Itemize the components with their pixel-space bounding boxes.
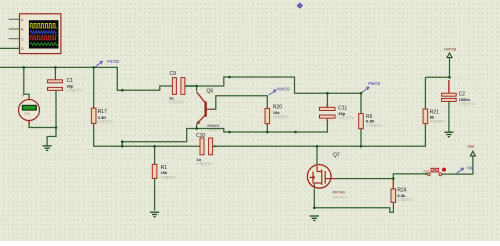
svg-text:<TEXT>: <TEXT> xyxy=(397,197,413,202)
svg-text:HVP08: HVP08 xyxy=(444,48,456,52)
svg-text:B: B xyxy=(21,28,23,32)
svg-text:<TEXT>: <TEXT> xyxy=(273,114,289,119)
svg-text:<TEXT>: <TEXT> xyxy=(67,88,83,93)
svg-text:IRF540: IRF540 xyxy=(333,191,345,195)
svg-text:Q7: Q7 xyxy=(333,153,340,159)
svg-text:<TEXT>: <TEXT> xyxy=(459,102,475,107)
svg-text:P4702: P4702 xyxy=(107,59,120,64)
svg-text:<TEXT>: <TEXT> xyxy=(430,119,446,124)
svg-text:<TEXT>: <TEXT> xyxy=(169,99,185,104)
svg-text:<TEXT>: <TEXT> xyxy=(207,129,222,133)
svg-text:<TEXT>: <TEXT> xyxy=(338,116,354,121)
svg-text:<TEXT>: <TEXT> xyxy=(333,195,348,199)
svg-text:R17: R17 xyxy=(98,109,107,115)
svg-text:+6V: +6V xyxy=(467,144,475,149)
svg-text:NMOS: NMOS xyxy=(277,87,290,92)
svg-text:<TEXT>: <TEXT> xyxy=(98,120,114,125)
svg-text:C9: C9 xyxy=(170,71,177,77)
svg-text:2N5401: 2N5401 xyxy=(207,124,220,128)
svg-text:RST: RST xyxy=(424,170,430,174)
svg-text:+: + xyxy=(22,93,25,98)
svg-text:PMOS: PMOS xyxy=(368,81,381,86)
svg-text:<TEXT>: <TEXT> xyxy=(197,161,213,166)
svg-text:Q6: Q6 xyxy=(207,89,214,95)
svg-text:<TEXT>: <TEXT> xyxy=(366,123,382,128)
svg-text:+6V: +6V xyxy=(466,165,475,170)
svg-text:C10: C10 xyxy=(196,133,205,139)
svg-text:0.00: 0.00 xyxy=(24,112,30,116)
svg-text:<TEXT>: <TEXT> xyxy=(161,175,177,180)
